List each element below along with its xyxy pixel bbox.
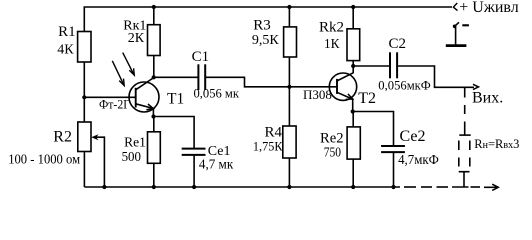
wire ground rail dashed extension: [404, 186, 480, 188]
resistor R2 (potentiometer): [78, 122, 91, 152]
light ray arrow 2: [123, 53, 135, 76]
label Rn=Rvx3: [474, 137, 519, 151]
wire ground rail solid: [84, 186, 400, 188]
wire Re2 top lead: [352, 112, 354, 127]
svg-text:+ Uживл: + Uживл: [459, 0, 519, 16]
wire Rk2 bottom to collector node: [352, 61, 354, 74]
wire Re1 bottom lead: [153, 163, 155, 187]
label Re2: [320, 130, 344, 146]
wire collector node to C2: [353, 65, 389, 67]
wire minus to chassis: [455, 27, 457, 45]
label R4: [265, 125, 283, 141]
label T1: [167, 90, 184, 107]
svg-text:1К: 1К: [324, 37, 340, 52]
node Re1 to rail junction: [152, 185, 156, 189]
wire output dashed lead: [464, 88, 466, 135]
svg-text:С1: С1: [192, 49, 210, 65]
wire output arrow head: [473, 84, 479, 89]
node Ce1 to rail junction: [192, 185, 196, 189]
value label 0,056 mk: [194, 86, 240, 101]
capacitor Ce1: [182, 149, 206, 155]
node wiper to rail junction: [102, 185, 106, 189]
label R2: [53, 129, 72, 146]
node top rail junction Rk1: [152, 5, 156, 9]
svg-text:0,056мкФ: 0,056мкФ: [378, 78, 431, 93]
label C1: [192, 49, 210, 65]
value label 4,7 mk: [199, 156, 234, 171]
ground chassis bar: [446, 44, 467, 47]
label Vih output: [472, 90, 503, 107]
svg-text:Фт-2Г: Фт-2Г: [99, 98, 130, 112]
svg-text:1,75К: 1,75К: [253, 139, 283, 154]
label R1: [58, 24, 76, 40]
wire R2 wiper arm: [91, 134, 104, 187]
svg-text:4,7мкФ: 4,7мкФ: [398, 152, 439, 167]
svg-text:0,056 мк: 0,056 мк: [194, 86, 240, 101]
value label 0,056 mkF: [378, 78, 431, 93]
svg-text:П308: П308: [303, 87, 332, 102]
label Ce1: [208, 144, 231, 159]
wire output return arrow: [484, 184, 498, 190]
resistor Rk2: [347, 29, 360, 61]
node T2 emitter junction: [351, 109, 355, 113]
svg-text:750: 750: [324, 145, 342, 160]
svg-text:9,5К: 9,5К: [252, 33, 280, 48]
label Rk1: [123, 19, 146, 34]
node base divider junction: [82, 95, 86, 99]
node R3 R4 base junction: [287, 85, 291, 89]
svg-text:2К: 2К: [128, 31, 145, 46]
label +U supply: [459, 0, 519, 16]
label Ft-2G phototransistor type: [99, 98, 130, 112]
resistor Rk1: [148, 25, 161, 56]
value label 4,7 mkF: [398, 152, 439, 167]
label Re1: [124, 136, 146, 151]
label Ce2: [400, 128, 426, 145]
resistor Re2: [347, 127, 360, 159]
svg-text:Т1: Т1: [167, 90, 184, 107]
wire Re1 top lead: [153, 117, 155, 132]
resistor R3: [284, 27, 297, 57]
node T2 collector junction: [351, 64, 355, 68]
svg-text:4К: 4К: [57, 42, 74, 57]
resistor Re1: [148, 132, 161, 164]
label P308 transistor type: [303, 87, 332, 102]
node top rail junction Rk2: [351, 5, 355, 9]
wire Rk1 top lead: [153, 7, 155, 25]
node R4 to rail junction: [287, 185, 291, 189]
svg-text:R1: R1: [58, 24, 76, 40]
resistor R4: [283, 126, 296, 158]
transistor T2: [329, 73, 356, 112]
node T1 emitter junction: [151, 114, 155, 118]
value label 1,75K: [253, 139, 283, 154]
svg-text:Rн=Rвх3: Rн=Rвх3: [474, 137, 519, 151]
node T1 collector junction: [152, 75, 156, 79]
wire C1 to T2 base rail: [206, 77, 336, 87]
wire Ce2 bottom lead: [393, 153, 395, 187]
svg-text:Се2: Се2: [400, 128, 426, 145]
wire collector node to C1: [154, 76, 198, 78]
terminal +U supply arrow: [453, 3, 457, 11]
svg-text:500: 500: [122, 149, 142, 164]
resistor R1: [78, 32, 91, 63]
wire R4 bottom lead: [288, 158, 290, 187]
node top rail junction R3: [287, 5, 291, 9]
wire Rk1 bottom to collector node: [153, 56, 155, 78]
svg-text:Вих.: Вих.: [472, 90, 503, 107]
minus sign: [462, 24, 469, 26]
wire load bottom lead: [463, 172, 465, 188]
value label 9,5K: [252, 33, 280, 48]
value label 4K: [57, 42, 74, 57]
label T2: [358, 90, 376, 107]
wire R3 bottom lead: [288, 57, 290, 87]
light ray arrow 1: [112, 61, 124, 86]
label R3: [253, 18, 271, 34]
wire Re2 bottom lead: [352, 159, 354, 187]
value label 1K: [324, 37, 340, 52]
label C2: [389, 36, 407, 52]
wire R1 bottom to R2 top: [83, 62, 85, 122]
node Re2 to rail junction: [351, 185, 355, 189]
svg-text:100 - 1000 ом: 100 - 1000 ом: [8, 153, 80, 168]
resistor Rn load (dashed): [459, 135, 471, 172]
node Ce2 to rail junction: [391, 185, 395, 189]
label Rk2: [319, 20, 344, 36]
capacitor C2: [390, 52, 397, 78]
wire C2 to output: [398, 66, 474, 87]
terminal minus contact: [453, 22, 459, 28]
value label 2K: [128, 31, 145, 46]
svg-text:Т2: Т2: [358, 90, 376, 107]
wire T1 base lead: [84, 96, 135, 98]
transistor T1: [129, 78, 159, 117]
value label 750: [324, 145, 342, 160]
svg-text:4,7 мк: 4,7 мк: [199, 156, 234, 171]
capacitor C1: [198, 64, 205, 90]
value label 100-1000 om: [8, 153, 80, 168]
wire R4 top lead: [288, 87, 290, 126]
wire R3 top lead: [288, 7, 290, 27]
wire R2 bottom to ground rail: [83, 152, 85, 188]
wire Ce1 bottom lead: [193, 156, 195, 188]
wire emitter node to Ce2: [353, 112, 394, 146]
wire emitter node to Ce1: [154, 117, 195, 149]
svg-text:Rk2: Rk2: [319, 20, 344, 36]
wire Rk2 top lead: [352, 7, 354, 29]
svg-text:R2: R2: [53, 129, 72, 146]
svg-text:С2: С2: [389, 36, 407, 52]
value label 500: [122, 149, 142, 164]
capacitor Ce2: [381, 146, 405, 152]
wire top supply rail: [84, 7, 452, 32]
svg-text:R3: R3: [253, 18, 271, 34]
